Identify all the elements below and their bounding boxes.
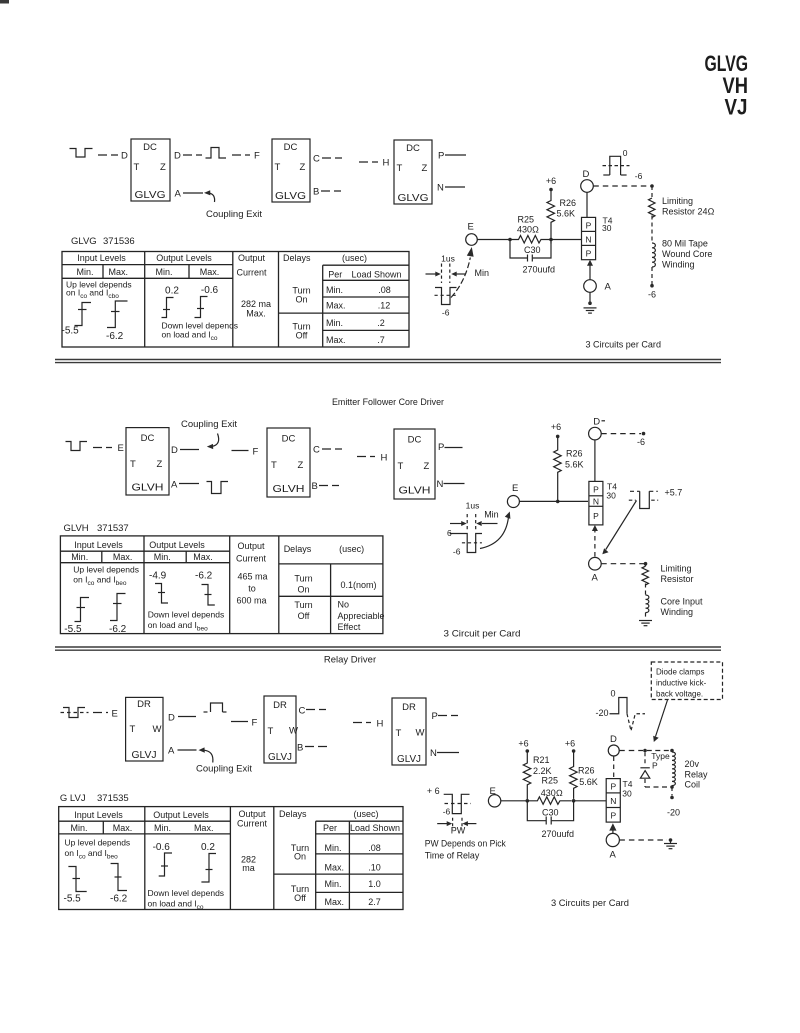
T3 delays turn on xyxy=(291,843,309,862)
svg-text:Winding: Winding xyxy=(662,260,695,270)
svg-text:Output: Output xyxy=(238,809,266,819)
svg-text:Off: Off xyxy=(298,611,310,621)
svg-text:B: B xyxy=(312,481,318,492)
wire dashed from C xyxy=(322,157,342,159)
T3 input max down-step waveform xyxy=(111,864,127,891)
svg-text:DC: DC xyxy=(143,142,157,153)
arrow A to emitter S3 xyxy=(609,823,616,833)
S3 node D circle xyxy=(608,745,619,756)
junction dot left of R25 xyxy=(508,238,512,242)
svg-text:.08: .08 xyxy=(368,843,381,853)
svg-text:Current: Current xyxy=(236,268,267,278)
T3 output min step waveform xyxy=(159,853,172,876)
S1 curved arrow pulse to E xyxy=(451,247,474,298)
limiting resistor 24ohm (dashed leads) xyxy=(649,186,656,243)
S1 label Min xyxy=(475,268,490,278)
T3 output max step waveform xyxy=(201,854,216,883)
ground dot xyxy=(588,301,592,305)
wire dashed from N xyxy=(445,186,465,188)
logic block U8 GLVJ (DR) xyxy=(264,696,298,763)
svg-text:(usec): (usec) xyxy=(339,544,364,554)
coupling exit curved arrow S2 xyxy=(207,434,219,450)
svg-text:T: T xyxy=(130,724,136,735)
svg-text:Winding: Winding xyxy=(661,607,694,617)
wire from A xyxy=(183,192,203,194)
limiting resistor labels S2 xyxy=(661,564,694,585)
svg-text:N: N xyxy=(437,183,444,194)
arrow A to transistor emitter xyxy=(587,260,593,280)
svg-text:Output: Output xyxy=(237,541,265,551)
svg-text:GLVJ: GLVJ xyxy=(397,754,421,765)
S2 node D output label xyxy=(171,445,178,456)
T1 output min step waveform xyxy=(162,298,174,318)
svg-text:DC: DC xyxy=(141,433,155,444)
wire (dashed) input to D xyxy=(98,154,118,156)
svg-text:Max.: Max. xyxy=(200,267,220,277)
svg-text:P: P xyxy=(610,782,616,792)
dashed wire A to ground S3 xyxy=(619,839,667,841)
dashed wire D to limiting resistor xyxy=(593,185,652,187)
svg-text:H: H xyxy=(377,719,384,730)
T1 input levels cell text xyxy=(66,280,132,301)
wire D to transistor S2 xyxy=(594,440,596,482)
ground symbol S2 xyxy=(639,621,652,626)
svg-text:GLVH: GLVH xyxy=(132,482,164,494)
svg-text:Min.: Min. xyxy=(326,285,343,295)
svg-text:1us: 1us xyxy=(441,254,455,264)
S2 label 1us xyxy=(466,501,480,511)
note box: diode clamps inductive kickback xyxy=(651,662,722,700)
svg-text:on Ico and Ibeo: on Ico and Ibeo xyxy=(65,848,119,861)
svg-text:P: P xyxy=(593,511,599,521)
svg-text:Coupling Exit: Coupling Exit xyxy=(196,764,252,775)
wire A to ground xyxy=(589,292,591,303)
S2 node H label xyxy=(381,453,388,464)
S3 PW input waveform xyxy=(437,794,476,829)
kickback waveform 0/-20 xyxy=(610,698,646,731)
svg-text:Relay Driver: Relay Driver xyxy=(324,655,376,666)
svg-text:Time of Relay: Time of Relay xyxy=(425,851,480,862)
svg-text:30: 30 xyxy=(622,788,632,798)
coupling exit curved arrow S3 xyxy=(199,747,213,762)
svg-text:-6: -6 xyxy=(442,308,450,318)
table T3 frame xyxy=(59,807,403,910)
svg-text:GLVH: GLVH xyxy=(399,485,431,497)
svg-text:+6: +6 xyxy=(518,739,528,749)
R25 labels S3 xyxy=(541,776,563,799)
svg-text:-6.2: -6.2 xyxy=(109,624,127,635)
svg-text:Z: Z xyxy=(160,162,166,173)
svg-text:(usec): (usec) xyxy=(353,809,378,819)
+6 supply S2 xyxy=(551,422,561,432)
T3 output current value xyxy=(241,855,256,874)
svg-text:-6: -6 xyxy=(453,547,461,557)
S1 input pulse waveform with 1us/Min annotation xyxy=(426,264,466,305)
svg-text:D: D xyxy=(174,151,181,162)
svg-text:DR: DR xyxy=(273,700,287,711)
terminal dot -20 xyxy=(670,796,674,800)
R21 labels xyxy=(533,755,552,776)
svg-text:Effect: Effect xyxy=(338,622,361,632)
S3 node E circle xyxy=(488,795,500,807)
svg-text:Wound Core: Wound Core xyxy=(662,249,712,259)
wire dashed from B xyxy=(321,190,341,192)
logic block U7 GLVJ (DR) xyxy=(126,697,163,761)
wire from C S3 xyxy=(306,709,326,711)
S3 node C label xyxy=(299,706,306,717)
svg-text:5.6K: 5.6K xyxy=(565,460,584,470)
svg-text:A: A xyxy=(168,746,175,757)
S3 label PW xyxy=(451,826,466,836)
section 3 heading xyxy=(324,655,376,666)
dashed wire diode to coil top xyxy=(647,750,672,752)
svg-text:A: A xyxy=(171,480,178,491)
svg-text:GLVJ: GLVJ xyxy=(268,752,292,763)
svg-text:3 Circuits per Card: 3 Circuits per Card xyxy=(551,898,629,909)
logic block U9 GLVJ (DR) xyxy=(392,698,426,765)
wire from B S3 xyxy=(305,746,330,748)
svg-text:G LVJ: G LVJ xyxy=(60,793,86,804)
S2 node P label xyxy=(438,442,444,453)
wire dashed to E S3 xyxy=(93,712,108,714)
terminal dot -6 xyxy=(650,284,654,288)
T3 value -6.2 xyxy=(110,894,128,905)
S2 node E label xyxy=(118,443,124,454)
T2 delays turn on xyxy=(294,574,312,595)
svg-text:Min.: Min. xyxy=(325,879,342,889)
ground symbol S1 xyxy=(584,308,597,313)
resistor R25 430ohm horizontal xyxy=(510,236,551,244)
svg-text:A: A xyxy=(592,573,599,584)
label Coupling Exit xyxy=(206,209,262,220)
svg-text:Max.: Max. xyxy=(113,823,133,833)
T3 input levels note xyxy=(65,838,131,861)
junction dot diode top xyxy=(643,749,647,753)
T1 delay values xyxy=(326,285,391,345)
S3 input waveform negative pulse with dashed midline xyxy=(61,708,89,718)
svg-text:-6.2: -6.2 xyxy=(195,571,213,582)
T2 turn off value xyxy=(338,600,385,633)
svg-text:T: T xyxy=(130,459,136,470)
svg-text:5.6K: 5.6K xyxy=(579,777,598,787)
T3 header text xyxy=(70,809,400,833)
svg-text:Coupling Exit: Coupling Exit xyxy=(181,419,237,430)
svg-text:inductive kick-: inductive kick- xyxy=(656,679,707,688)
svg-text:H: H xyxy=(383,158,390,169)
S2 node E circle xyxy=(507,496,519,508)
svg-text:Z: Z xyxy=(424,461,430,472)
S2 node A circle xyxy=(589,557,602,570)
svg-text:Max.: Max. xyxy=(325,863,345,873)
svg-text:GLVH: GLVH xyxy=(64,523,89,534)
svg-text:0.2: 0.2 xyxy=(201,842,215,853)
svg-text:+6: +6 xyxy=(551,422,561,432)
svg-text:Resistor: Resistor xyxy=(661,574,694,584)
transistor T4 PNP S3 xyxy=(606,779,620,823)
dashed wire A to limiting resistor S2 xyxy=(601,563,645,565)
svg-text:430Ω: 430Ω xyxy=(517,225,539,235)
svg-text:Z: Z xyxy=(300,162,306,173)
svg-text:Z: Z xyxy=(298,460,304,471)
svg-text:6: 6 xyxy=(447,528,452,538)
svg-text:600 ma: 600 ma xyxy=(236,596,266,606)
wire from C xyxy=(322,448,342,450)
S2 input waveform negative pulse xyxy=(66,442,88,451)
T2 output -4.9 xyxy=(149,571,167,582)
svg-text:T: T xyxy=(268,726,274,737)
S2 input pulse waveform with 1us/Min xyxy=(450,514,498,553)
svg-text:on load and Ibeo: on load and Ibeo xyxy=(148,620,208,633)
S1 label D xyxy=(583,169,590,180)
T3 output 0.2 xyxy=(201,842,215,853)
svg-text:0: 0 xyxy=(623,148,628,158)
svg-text:-20: -20 xyxy=(667,808,680,818)
svg-text:W: W xyxy=(416,728,425,739)
svg-text:-6.2: -6.2 xyxy=(106,331,124,342)
svg-text:270uufd: 270uufd xyxy=(523,265,556,275)
label -20 xyxy=(667,808,680,818)
svg-text:C: C xyxy=(299,706,306,717)
relay coil 20v xyxy=(672,752,675,786)
dashed arrow A to emitter S2 xyxy=(592,525,598,557)
svg-text:Max.: Max. xyxy=(326,301,346,311)
logic block U5 GLVH (DC) xyxy=(267,428,310,497)
dashed wire D to -6 xyxy=(601,433,641,435)
svg-text:T: T xyxy=(271,460,277,471)
svg-text:Max.: Max. xyxy=(109,267,129,277)
S2 label 6 xyxy=(447,528,452,538)
svg-text:Delays: Delays xyxy=(283,253,311,263)
T4 labels S3 xyxy=(622,779,632,798)
svg-text:T: T xyxy=(275,162,281,173)
T1 input max step waveform xyxy=(107,301,128,328)
S2 schem D label xyxy=(593,417,600,428)
section separator double line 1 xyxy=(55,360,721,363)
svg-text:.2: .2 xyxy=(377,318,385,328)
wire from P S3 xyxy=(438,715,458,717)
logic block U1 GLVG (DC) xyxy=(131,139,170,201)
S2 node A output label xyxy=(171,480,178,491)
svg-text:GLVG: GLVG xyxy=(398,192,429,204)
svg-text:back voltage.: back voltage. xyxy=(656,690,703,699)
T3 value -5.5 xyxy=(64,894,82,905)
dashed wire D to diode xyxy=(619,750,643,752)
svg-text:F: F xyxy=(253,447,259,458)
svg-text:Min: Min xyxy=(484,510,499,520)
node D (output pin of U1) xyxy=(174,151,181,162)
svg-text:Min: Min xyxy=(475,268,490,278)
svg-text:on Ico and Ibeo: on Ico and Ibeo xyxy=(73,575,127,588)
svg-text:D: D xyxy=(168,713,175,724)
R26 labels S2 xyxy=(565,449,584,470)
svg-text:N: N xyxy=(437,479,444,490)
svg-text:Turn: Turn xyxy=(294,574,312,584)
svg-text:DC: DC xyxy=(406,143,420,154)
wire from N S3 xyxy=(437,752,459,754)
svg-text:+5.7: +5.7 xyxy=(665,488,683,498)
svg-text:Min.: Min. xyxy=(154,552,171,562)
S3 schem D label xyxy=(610,734,617,745)
dashed lead to -6 xyxy=(651,267,653,286)
limiting resistor labels xyxy=(662,196,715,217)
S3 node D output label xyxy=(168,713,175,724)
svg-text:Current: Current xyxy=(236,554,267,564)
S3 node P label xyxy=(432,711,438,722)
svg-text:-6: -6 xyxy=(637,437,645,447)
relay coil labels xyxy=(685,759,709,790)
T2 output current value xyxy=(236,572,267,606)
svg-text:On: On xyxy=(294,852,306,862)
C30 labels xyxy=(523,245,556,275)
input waveform (negative pulse) into D xyxy=(70,149,93,158)
limiting resistor S2 xyxy=(642,564,649,595)
svg-text:371535: 371535 xyxy=(97,793,129,804)
svg-text:T: T xyxy=(397,163,403,174)
svg-text:Turn: Turn xyxy=(294,600,312,610)
svg-text:N: N xyxy=(610,796,616,806)
svg-text:Coil: Coil xyxy=(685,780,701,790)
svg-text:N: N xyxy=(593,497,599,507)
S2 schem E label xyxy=(512,483,518,494)
svg-text:D: D xyxy=(583,169,590,180)
S3 D waveform positive pulse with dashed baseline xyxy=(204,703,230,712)
wire from N xyxy=(444,483,465,485)
node C (output of U2) xyxy=(313,154,320,165)
svg-text:-5.5: -5.5 xyxy=(64,624,82,635)
node N (output of U3) xyxy=(437,183,444,194)
svg-text:465 ma: 465 ma xyxy=(237,572,267,582)
+6 supply R21 xyxy=(518,739,528,749)
coil top dot xyxy=(670,749,674,753)
svg-text:(usec): (usec) xyxy=(342,253,367,263)
junction dot right of R25 xyxy=(549,238,553,242)
wire dashed from D output xyxy=(183,154,202,156)
label -6 bottom xyxy=(648,290,656,300)
svg-text:D: D xyxy=(610,734,617,745)
wire into H S3 xyxy=(353,722,371,724)
wire into H xyxy=(357,456,375,458)
wire dashed from P xyxy=(445,154,466,156)
svg-text:On: On xyxy=(297,585,309,595)
svg-text:.12: .12 xyxy=(378,301,391,311)
svg-text:E: E xyxy=(512,483,518,494)
junction dot S2 limiting xyxy=(644,562,648,566)
svg-text:Type: Type xyxy=(651,751,670,761)
svg-text:PW: PW xyxy=(451,826,466,836)
svg-text:to: to xyxy=(248,584,256,594)
wire dashed to F xyxy=(232,154,250,156)
R26 labels xyxy=(557,198,577,219)
svg-text:Limiting: Limiting xyxy=(661,564,692,574)
kickback labels 0 and -20 xyxy=(596,689,616,719)
node P (output of U3) xyxy=(438,151,444,162)
svg-text:3 Circuit per Card: 3 Circuit per Card xyxy=(444,629,521,640)
T1 output 0.2 xyxy=(165,286,179,297)
S3 note PW depends xyxy=(425,839,506,862)
svg-text:GLVG: GLVG xyxy=(71,236,97,247)
T2 delays turn off xyxy=(294,600,312,621)
wire dashed to F xyxy=(232,450,249,452)
svg-text:DR: DR xyxy=(137,699,151,710)
T1 value -6.2 xyxy=(106,331,124,342)
supply dot S2 xyxy=(556,435,560,439)
svg-text:DC: DC xyxy=(284,142,298,153)
logic block U4 GLVH (DC) xyxy=(126,428,169,495)
node E circle xyxy=(466,234,478,246)
S2 node B label xyxy=(312,481,318,492)
svg-text:Load Shown: Load Shown xyxy=(351,270,401,280)
table T2 frame xyxy=(60,536,383,634)
label -6 S2 xyxy=(637,437,645,447)
T2 output -6.2 xyxy=(195,571,213,582)
junction dot top of limiting resistor xyxy=(650,184,654,188)
T3 input min down-step waveform xyxy=(68,867,86,892)
T2 header text xyxy=(71,540,364,564)
svg-text:3 Circuits per Card: 3 Circuits per Card xyxy=(586,340,662,351)
T2 output max down-step waveform xyxy=(202,585,215,606)
svg-text:80 Mil Tape: 80 Mil Tape xyxy=(662,239,708,249)
resistor R26 5.6K vertical xyxy=(547,190,555,244)
svg-text:No: No xyxy=(338,600,350,610)
scan artifact top-left corner xyxy=(0,0,9,4)
note 3 Circuits per Card S3 xyxy=(551,898,629,909)
T2 input min step waveform xyxy=(75,598,90,622)
svg-text:Z: Z xyxy=(422,163,428,174)
svg-text:VJ: VJ xyxy=(725,95,748,120)
S3 schem A label xyxy=(610,850,617,861)
svg-text:Min.: Min. xyxy=(325,843,342,853)
svg-text:.08: .08 xyxy=(378,285,391,295)
svg-text:Limiting: Limiting xyxy=(662,196,693,206)
svg-text:Down level depends: Down level depends xyxy=(148,888,225,898)
logic block U3 GLVG (DC) xyxy=(394,140,432,204)
svg-text:20v: 20v xyxy=(685,759,700,769)
svg-text:Min.: Min. xyxy=(76,267,93,277)
svg-text:+ 6: + 6 xyxy=(427,786,440,796)
+5.7 waveform xyxy=(629,491,658,508)
wire D to transistor S3 xyxy=(613,757,615,779)
S3 +6 label for PW waveform xyxy=(427,786,440,796)
svg-text:On: On xyxy=(295,295,307,305)
supply dot R26 S3 xyxy=(572,749,576,753)
wire E to junction S2 xyxy=(519,500,557,502)
svg-text:P: P xyxy=(438,151,444,162)
T2 input max step waveform xyxy=(110,594,126,621)
capacitor C30 branch xyxy=(510,240,551,262)
svg-text:1.0: 1.0 xyxy=(368,879,381,889)
svg-text:B: B xyxy=(313,187,319,198)
waveform positive pulse after D xyxy=(206,148,227,159)
svg-text:Z: Z xyxy=(157,459,163,470)
svg-text:DC: DC xyxy=(408,435,422,446)
core winding coil xyxy=(652,243,655,267)
node D (input pin label) xyxy=(121,151,128,162)
svg-text:Diode clamps: Diode clamps xyxy=(656,668,704,677)
svg-text:Min.: Min. xyxy=(326,318,343,328)
svg-text:-4.9: -4.9 xyxy=(149,571,167,582)
svg-text:A: A xyxy=(175,189,182,200)
svg-text:R26: R26 xyxy=(578,766,595,776)
logic block U6 GLVH (DC) xyxy=(394,429,435,499)
svg-text:F: F xyxy=(254,151,260,162)
T1 output -0.6 xyxy=(201,285,219,296)
svg-text:282 ma: 282 ma xyxy=(241,299,271,309)
svg-text:Max.: Max. xyxy=(246,309,266,319)
note 3 Circuits per Card xyxy=(586,340,662,351)
svg-text:Current: Current xyxy=(237,819,268,829)
svg-text:Coupling Exit: Coupling Exit xyxy=(206,209,262,220)
svg-text:Min.: Min. xyxy=(70,823,87,833)
